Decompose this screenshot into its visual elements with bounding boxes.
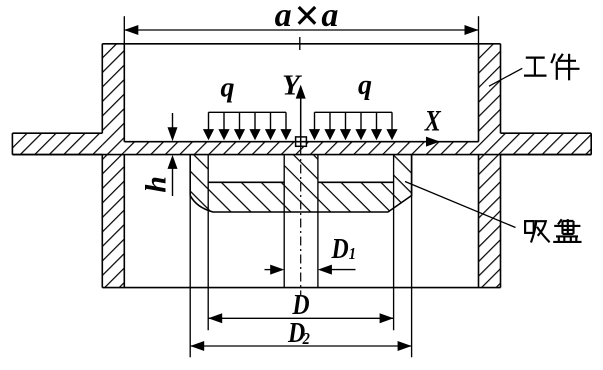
svg-text:X: X xyxy=(424,104,442,137)
svg-text:h: h xyxy=(140,176,173,193)
svg-text:Y: Y xyxy=(282,70,302,102)
svg-text:D: D xyxy=(291,289,309,320)
svg-text:q: q xyxy=(358,70,372,101)
svg-text:q: q xyxy=(221,73,235,104)
